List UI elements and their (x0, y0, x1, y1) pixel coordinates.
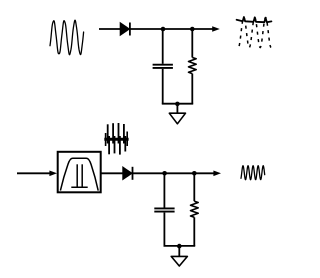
diode D2 (123, 167, 133, 180)
wire (bottom bottom rail) (164, 245, 196, 247)
node junction (bottom, capacitor tap) (162, 171, 167, 176)
bandpass filter U1 (box) (58, 152, 101, 193)
wire (bottom circuit diode to output arrow) (133, 171, 222, 177)
wire (top ground stem) (176, 104, 178, 113)
diode D1 (120, 23, 130, 36)
wire (top capacitor branch lower) (162, 69, 164, 104)
input AM signal waveform (top left) (50, 20, 84, 54)
resistor R2 (191, 201, 199, 217)
ground (bottom circuit) (171, 256, 187, 266)
wire (bottom ground stem) (178, 246, 180, 256)
capacitor C1 (153, 65, 173, 68)
interference burst waveform (above filter) (104, 123, 128, 155)
wire (top bottom rail) (162, 103, 193, 105)
node junction (top ground tap) (175, 102, 180, 107)
node junction (bottom ground tap) (177, 244, 182, 249)
wire (top resistor branch upper) (191, 29, 193, 58)
bandpass filter response curve (60, 158, 98, 190)
wire (bottom capacitor branch lower) (163, 213, 165, 246)
node junction (top, capacitor tap) (161, 27, 166, 32)
resistor R1 (189, 58, 197, 74)
wire (filter to diode) (101, 172, 123, 174)
wire (bottom resistor branch lower) (193, 217, 195, 246)
wire (bottom resistor branch upper) (193, 173, 195, 201)
wire (bottom capacitor branch upper) (163, 173, 165, 207)
bandpass filter passband markers (71, 164, 87, 187)
output demodulated sine waveform (bottom right) (241, 166, 265, 180)
output rectified waveform with ripple (top right): dashed carrier (238, 18, 271, 48)
wire (top circuit input to diode) (99, 28, 120, 30)
wire (bottom circuit input) (17, 171, 57, 177)
ground (top circuit) (169, 113, 185, 124)
node junction (bottom, resistor tap) (192, 171, 197, 176)
capacitor C2 (154, 208, 174, 211)
wire (top capacitor branch upper) (162, 29, 164, 64)
node junction (top, resistor tap) (190, 27, 195, 32)
wire (top resistor branch lower) (191, 74, 193, 104)
wire (top circuit diode to output arrow) (130, 26, 220, 32)
output rectified waveform envelope (solid top) (237, 17, 272, 22)
